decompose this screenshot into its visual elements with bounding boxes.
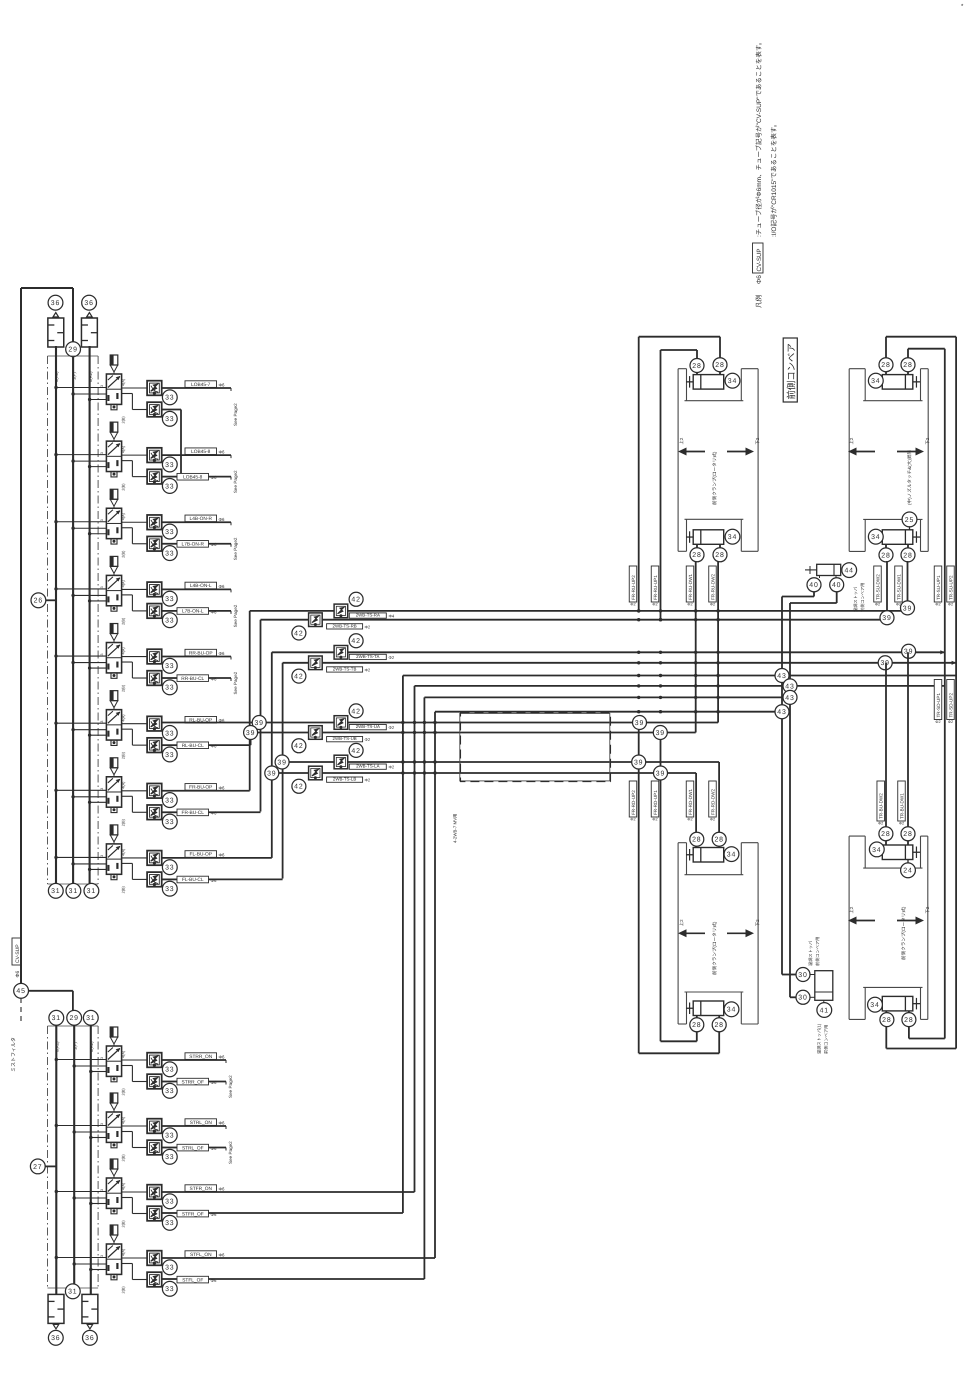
node 29 circle (top manifold feed) — [66, 342, 81, 357]
svg-text:28: 28 — [882, 1017, 891, 1024]
valve CLP2 MV supply stubs — [56, 722, 106, 724]
node 26 circle — [31, 593, 46, 608]
coupler lower p2 — [309, 656, 323, 670]
svg-text:2WB-TS-RB: 2WB-TS-RB — [333, 623, 357, 628]
label FL-BU-CL — [177, 876, 209, 883]
TR lift arrows — [848, 448, 857, 456]
wire v7A right — [162, 790, 250, 792]
svg-text:33: 33 — [165, 886, 174, 893]
svg-text:See Page2: See Page2 — [233, 604, 238, 627]
svg-text:31: 31 — [87, 888, 96, 895]
coupler upper p2 — [334, 646, 348, 660]
wire A to page2 (bottom) — [162, 1125, 226, 1127]
svg-text:33: 33 — [165, 596, 174, 603]
svg-text:STRR_OF: STRR_OF — [182, 1079, 204, 1085]
svg-text:TR-SD-UP1: TR-SD-UP1 — [936, 693, 941, 718]
svg-text:2(B): 2(B) — [122, 818, 126, 826]
svg-text:28: 28 — [692, 552, 701, 559]
BL bottom return wires — [696, 1032, 698, 1041]
svg-text:See Page2: See Page2 — [233, 403, 238, 426]
svg-text:31: 31 — [68, 1289, 77, 1296]
bus line R1 (bottom group) — [55, 1025, 57, 1294]
wire L4 — [283, 662, 957, 664]
svg-text:43: 43 — [785, 695, 794, 702]
svg-text:31: 31 — [86, 1015, 95, 1022]
valve CHP5 MV supply stubs — [56, 387, 106, 389]
label L7B-ON-L — [177, 608, 209, 615]
valve STRLMV port A wire — [122, 1125, 148, 1127]
speed controller A of CNG2 MV — [147, 515, 162, 530]
supply wire: outer left vertical — [20, 288, 22, 984]
svg-text:36: 36 — [51, 1335, 60, 1342]
svg-text:3: 3 — [100, 519, 104, 521]
svg-text:39: 39 — [254, 720, 263, 727]
svg-text:33: 33 — [165, 1286, 174, 1293]
svg-text:前側クランプ(ロータリ式): 前側クランプ(ロータリ式) — [712, 921, 717, 975]
svg-text:34: 34 — [871, 534, 880, 541]
valve CNG2 MV port A wire — [122, 521, 148, 523]
svg-text:FR-RU-DW1: FR-RU-DW1 — [688, 574, 693, 600]
svg-text:Φ2: Φ2 — [896, 603, 901, 607]
label 2WB-TS-UB — [327, 736, 363, 742]
stopper lower wires — [782, 974, 796, 976]
svg-text:33: 33 — [165, 1220, 174, 1227]
svg-text:LOB45-7: LOB45-7 — [191, 382, 211, 388]
svg-text:28: 28 — [903, 362, 912, 369]
speed controller A of CLP4 MV — [147, 649, 162, 664]
svg-text:33: 33 — [165, 1133, 174, 1140]
svg-text:33: 33 — [165, 797, 174, 804]
node 31 circle (bottom group bus R2 top) — [83, 1010, 98, 1025]
svg-text:FR-RU-UP2: FR-RU-UP2 — [631, 575, 636, 600]
svg-text:4(A): 4(A) — [122, 647, 126, 655]
label RR-BU-OP — [185, 649, 217, 656]
svg-text:Φ2: Φ2 — [687, 818, 692, 822]
valve STRRMV supply stubs — [56, 1059, 106, 1061]
lane unit dashed box — [461, 713, 611, 782]
svg-text:See Page2: See Page2 — [233, 470, 238, 493]
svg-text:2(B): 2(B) — [122, 1154, 126, 1162]
speed controller A of STRRMV — [147, 1053, 162, 1068]
wire A to page2 — [162, 656, 231, 658]
riser v3B — [402, 676, 404, 1214]
svg-text:2WB-TS-LA: 2WB-TS-LA — [356, 764, 379, 769]
valve CHP1 MV port A wire — [122, 454, 148, 456]
svg-text:2WB-TS-UA: 2WB-TS-UA — [356, 724, 380, 729]
valve CLF1 MV supply stubs — [56, 856, 106, 858]
valve CLP6 MV supply stubs — [56, 789, 106, 791]
svg-text:STFR_ON: STFR_ON — [190, 1186, 213, 1192]
valve STRRMV port B wire — [122, 1065, 133, 1067]
svg-text:30: 30 — [798, 972, 807, 979]
svg-text:Φ2: Φ2 — [365, 737, 371, 742]
v6B jog up to L10 — [250, 733, 252, 746]
wire L7 — [424, 696, 790, 698]
svg-text:前側クランプ(ロータリ式): 前側クランプ(ロータリ式) — [901, 906, 906, 960]
BR top cylinder — [882, 845, 913, 860]
svg-text:4(A): 4(A) — [122, 781, 126, 789]
svg-text:36: 36 — [85, 1335, 94, 1342]
node 28 circles TL bottom — [690, 548, 704, 562]
stopper cylinder lower — [815, 971, 833, 1001]
svg-text:33: 33 — [165, 483, 174, 490]
svg-text:42: 42 — [294, 784, 303, 791]
label STRR_ON — [185, 1053, 217, 1060]
svg-text:Φ2: Φ2 — [687, 603, 692, 607]
svg-text:2WB-TS-TA: 2WB-TS-TA — [356, 654, 379, 659]
node 33 circle (B) — [162, 1215, 177, 1230]
riser v7A to L1 — [249, 611, 251, 791]
svg-text:前側コンベア用: 前側コンベア用 — [815, 937, 820, 966]
wire v7B right — [162, 811, 177, 813]
svg-text:上2: 上2 — [679, 437, 684, 444]
valve CLF1 MV port B wire — [122, 862, 133, 864]
svg-text:ミストフィルタ: ミストフィルタ — [10, 1037, 17, 1072]
label 2WB-TS-TA — [349, 654, 386, 660]
valve CLF1 MV port A wire — [122, 857, 148, 859]
wire STFR B to vertical — [162, 1212, 177, 1214]
BL feed risers — [718, 762, 720, 849]
svg-text:43: 43 — [777, 709, 786, 716]
svg-text:Φ6: Φ6 — [219, 1055, 226, 1060]
valve STFRMV port A wire — [122, 1191, 148, 1193]
valve STRRMV port A wire — [122, 1059, 148, 1061]
svg-text:3: 3 — [100, 1057, 104, 1059]
node 42 circle — [292, 779, 306, 793]
svg-text:FL-BU-CL: FL-BU-CL — [182, 877, 204, 883]
node 34 circle TL top — [725, 373, 740, 388]
valve CNG2 MV supply stubs — [56, 521, 106, 523]
wire B to page2 — [162, 610, 177, 612]
label STFR_OF — [177, 1210, 209, 1217]
stopper lower stubs — [807, 974, 815, 976]
svg-text:39: 39 — [656, 770, 665, 777]
valve CHP1 MV port B wire — [122, 460, 133, 462]
svg-text:温調ストッパ(1): 温調ストッパ(1) — [817, 1023, 822, 1054]
TL top port stubs — [696, 350, 698, 375]
svg-text:下2: 下2 — [755, 437, 760, 444]
svg-text:33: 33 — [165, 685, 174, 692]
svg-text:Φ6: Φ6 — [756, 275, 763, 284]
label FR-BU-CL — [177, 809, 209, 816]
solenoid valve CLP2 MV — [100, 691, 122, 746]
air filter unit top 2 — [81, 318, 97, 347]
TL bottom wires down through labels — [695, 561, 697, 733]
svg-text:L4B-ON-R: L4B-ON-R — [190, 516, 213, 522]
riser TL-A — [638, 337, 640, 611]
svg-text:(中)ノズルタッチ&(大)昇降: (中)ノズルタッチ&(大)昇降 — [907, 449, 912, 505]
svg-text:Φ6: Φ6 — [219, 1253, 226, 1258]
wire L1 — [250, 610, 908, 612]
svg-text:Φ2: Φ2 — [652, 603, 657, 607]
svg-text:39: 39 — [882, 615, 891, 622]
svg-text:2(B): 2(B) — [122, 483, 126, 491]
valve STFLMV supply stubs — [56, 1257, 106, 1259]
speed controller B of CHP1 MV — [147, 469, 162, 484]
svg-text:STRL_ON: STRL_ON — [190, 1120, 213, 1126]
svg-text:上2: 上2 — [849, 906, 854, 913]
TR top stubs — [885, 337, 887, 375]
speed controller A of CLF1 MV — [147, 851, 162, 866]
valve CLP2 MV port B wire — [122, 728, 133, 730]
speed controller A of STRLMV — [147, 1119, 162, 1134]
svg-text:28: 28 — [881, 552, 890, 559]
bus line P (top group) — [72, 357, 74, 885]
svg-text:FR-BU-CL: FR-BU-CL — [182, 810, 205, 816]
node 45 circle — [14, 983, 29, 998]
node 33 circle (A) — [162, 658, 177, 673]
node 33 circle (B) — [162, 881, 177, 896]
node 31 circles bottom of top-group bus — [48, 883, 63, 898]
valve STRLMV port B wire — [122, 1131, 133, 1133]
wire B to page2 — [162, 543, 177, 545]
svg-text:28: 28 — [714, 1022, 723, 1029]
svg-text:L7B-ON-L: L7B-ON-L — [182, 609, 204, 615]
solenoid valve CHP5 MV — [100, 355, 122, 410]
wire B to page2 — [162, 476, 177, 478]
label STFR_ON — [185, 1185, 217, 1192]
svg-text:下2: 下2 — [925, 906, 930, 913]
node 33 circle (B) — [162, 814, 177, 829]
svg-text:3: 3 — [100, 385, 104, 387]
svg-text:24: 24 — [903, 868, 912, 875]
svg-text:TR-SU-DW2: TR-SU-DW2 — [875, 574, 880, 600]
svg-text:2(B): 2(B) — [122, 1088, 126, 1096]
wire L10 — [250, 732, 696, 734]
valve CNG1 MV port B wire — [122, 594, 133, 596]
svg-text:See Page2: See Page2 — [233, 671, 238, 694]
svg-text:Φ2: Φ2 — [389, 725, 395, 730]
label L7B-ON-R — [177, 541, 209, 548]
wire v6A start — [162, 722, 251, 724]
svg-text:33: 33 — [165, 550, 174, 557]
node 33 circle (B) — [162, 1281, 177, 1296]
dashed continuation below node 45 — [20, 998, 22, 1022]
svg-text:28: 28 — [692, 837, 701, 844]
TR top wires right — [886, 336, 956, 338]
svg-text:RL-BU-CL: RL-BU-CL — [182, 743, 204, 749]
svg-text:Φ2: Φ2 — [389, 765, 395, 770]
svg-text:上2: 上2 — [849, 437, 854, 444]
svg-text:0(R1): 0(R1) — [55, 1041, 60, 1052]
speed controller B of CLP2 MV — [147, 738, 162, 753]
svg-text:Φ2: Φ2 — [365, 624, 371, 629]
node 36 circle (bottom filter 1) — [48, 1330, 63, 1345]
svg-text:2WB-TS-RA: 2WB-TS-RA — [356, 613, 380, 618]
TR bottom stubs — [885, 544, 887, 560]
svg-text:30: 30 — [798, 995, 807, 1002]
svg-text:2(B): 2(B) — [122, 684, 126, 692]
svg-text:RR-BU-CL: RR-BU-CL — [181, 676, 204, 682]
svg-text:FR-RD-DW2: FR-RD-DW2 — [710, 789, 715, 815]
label STRL_OF — [177, 1144, 209, 1151]
BL bottom stubs — [696, 1016, 698, 1033]
node 33 circle (A) — [162, 1062, 177, 1077]
svg-text:43: 43 — [785, 683, 794, 690]
svg-text:3: 3 — [100, 788, 104, 790]
solenoid valve STFLMV — [100, 1225, 122, 1280]
node 33 circle (A) — [162, 524, 177, 539]
riser v7B to L2 — [260, 620, 262, 812]
manifold boundary (bottom group, dash-dot) — [47, 1026, 49, 1288]
svg-text:Φ2: Φ2 — [630, 818, 635, 822]
svg-text:FR-RD-DW1: FR-RD-DW1 — [688, 789, 693, 815]
supply label CV-SUP vertical — [12, 938, 22, 965]
BR bottom stubs — [885, 1011, 887, 1049]
valve STFRMV supply stubs — [56, 1191, 106, 1193]
svg-text:40: 40 — [809, 582, 818, 589]
air filter unit bottom 2 — [82, 1294, 98, 1323]
svg-text:See Page2: See Page2 — [233, 537, 238, 560]
svg-text:FR-RD-UP2: FR-RD-UP2 — [631, 790, 636, 815]
svg-text:33: 33 — [165, 663, 174, 670]
node 28 circles TR bottom — [879, 548, 893, 562]
svg-text:TR-SU-DW1: TR-SU-DW1 — [896, 574, 901, 600]
svg-text:34: 34 — [871, 378, 880, 385]
svg-text:Φ2: Φ2 — [875, 603, 880, 607]
node 25 circle — [902, 512, 917, 527]
label column row2 (above BL) — [629, 781, 637, 817]
svg-text:RR-BU-OP: RR-BU-OP — [189, 650, 213, 656]
svg-text:33: 33 — [165, 1088, 174, 1095]
svg-text:33: 33 — [165, 1067, 174, 1074]
label 2WB-TS-TB — [327, 667, 363, 673]
label FL-BU-OP — [185, 851, 217, 858]
node 42 circle — [292, 626, 306, 640]
svg-text:1(P): 1(P) — [72, 1041, 77, 1050]
svg-text:前側コンベア用: 前側コンベア用 — [824, 1025, 829, 1054]
wire L9 — [251, 722, 718, 724]
svg-text:27: 27 — [33, 1164, 42, 1171]
speed controller A of CNG1 MV — [147, 582, 162, 597]
svg-text:FL-BU-OP: FL-BU-OP — [190, 852, 212, 858]
node 39 circles L3/L4 right — [902, 644, 916, 658]
coupler lower p1 — [309, 613, 323, 627]
svg-text:3: 3 — [100, 1255, 104, 1257]
riser v8A to L3 — [271, 652, 273, 858]
wire to node 24 — [907, 860, 909, 864]
svg-text:STFL_ON: STFL_ON — [190, 1252, 212, 1258]
wire v8B right — [162, 878, 177, 880]
wire L6 — [415, 685, 945, 687]
svg-text:4(A): 4(A) — [122, 1248, 126, 1256]
speed controller A of STFLMV — [147, 1251, 162, 1266]
solenoid valve CLP4 MV — [100, 624, 122, 679]
label column right row1 — [874, 566, 882, 602]
label STRR_OF — [177, 1078, 209, 1085]
svg-text:Φ6: Φ6 — [219, 1187, 226, 1192]
svg-text:31: 31 — [69, 888, 78, 895]
valve CHP5 MV port A wire — [122, 387, 148, 389]
node 33 circle (B) — [162, 479, 177, 494]
riser v8B to L4 — [282, 663, 284, 879]
svg-text:Φ6: Φ6 — [219, 852, 226, 857]
node 36 circle (top filter 1) — [48, 295, 63, 310]
valve STRLMV supply stubs — [56, 1125, 106, 1127]
svg-text:33: 33 — [165, 752, 174, 759]
stopper cylinder 44 — [817, 564, 841, 575]
node 42 circle — [292, 739, 306, 753]
right riser A (x944.8) — [944, 349, 946, 1039]
svg-text:4(A): 4(A) — [122, 512, 126, 520]
speed controller B of STRLMV — [147, 1140, 162, 1155]
svg-text:4(A): 4(A) — [122, 1050, 126, 1058]
svg-text:29: 29 — [69, 1015, 78, 1022]
svg-text:2WB-TS-UB: 2WB-TS-UB — [333, 736, 357, 741]
svg-text:3: 3 — [100, 1189, 104, 1191]
coupler upper p3 — [334, 716, 348, 730]
svg-text:Φ2: Φ2 — [899, 822, 904, 826]
wire to node 25 — [909, 526, 911, 530]
svg-text:33: 33 — [165, 819, 174, 826]
svg-text:39: 39 — [267, 770, 276, 777]
node 33 circle (B) — [162, 680, 177, 695]
svg-text:TR-BU-DW2: TR-BU-DW2 — [879, 793, 884, 819]
lane unit thin box — [460, 713, 610, 781]
svg-text:28: 28 — [904, 1017, 913, 1024]
wire A to page2 — [162, 521, 231, 523]
svg-text:TR-BU-DW1: TR-BU-DW1 — [899, 793, 904, 819]
svg-text:2(B): 2(B) — [122, 1286, 126, 1294]
svg-text:33: 33 — [165, 618, 174, 625]
node 29 circle (bottom group bus P top) — [67, 1010, 82, 1025]
TL lifter frame — [678, 368, 686, 370]
svg-text:34: 34 — [872, 847, 881, 854]
riser v3A — [414, 686, 416, 1192]
valve CNG1 MV supply stubs — [56, 588, 106, 590]
svg-text:4(A): 4(A) — [122, 714, 126, 722]
svg-text:Φ2: Φ2 — [365, 667, 371, 672]
svg-text:33: 33 — [165, 1265, 174, 1272]
svg-text:下2: 下2 — [925, 437, 930, 444]
speed controller B of STRRMV — [147, 1074, 162, 1089]
arrows into right risers — [940, 650, 945, 654]
BL lifter frame — [678, 842, 686, 844]
svg-text:LOB45-8: LOB45-8 — [183, 474, 203, 480]
svg-text:See Page2: See Page2 — [228, 1075, 233, 1098]
TL lift arrows — [678, 448, 687, 456]
node 42 circle — [349, 704, 363, 718]
label column row1 under TL — [629, 566, 637, 602]
svg-text:28: 28 — [715, 362, 724, 369]
wire v8A right — [162, 857, 272, 859]
speed controller B of CNG1 MV — [147, 604, 162, 619]
wire STFL B to vertical — [162, 1278, 177, 1280]
wire L11 — [283, 761, 719, 763]
wire B to page2 (bottom) — [162, 1147, 177, 1149]
speed controller B of CHP5 MV — [147, 402, 162, 417]
svg-text:42: 42 — [294, 630, 303, 637]
label column above BR — [877, 781, 885, 821]
svg-text:33: 33 — [165, 462, 174, 469]
svg-text:26: 26 — [34, 598, 43, 605]
svg-text:Φ2: Φ2 — [948, 603, 953, 607]
TL bottom port stubs — [696, 544, 698, 560]
node 34 circle TR bottom — [868, 529, 883, 544]
air filter unit top 1 — [48, 318, 64, 347]
node 27 circle — [30, 1159, 45, 1174]
coupler upper p4 — [334, 755, 348, 769]
svg-text:4(A): 4(A) — [122, 579, 126, 587]
svg-text:34: 34 — [728, 378, 737, 385]
coupler lower p4 — [309, 766, 323, 780]
node 36 circle (bottom filter 2) — [83, 1330, 98, 1345]
svg-text:39: 39 — [635, 720, 644, 727]
svg-text:1(P): 1(P) — [71, 371, 76, 380]
node 28 circles BR top — [879, 827, 893, 841]
svg-text:4(A): 4(A) — [122, 1182, 126, 1190]
riser R1 mid (x638.7) — [638, 723, 640, 1054]
